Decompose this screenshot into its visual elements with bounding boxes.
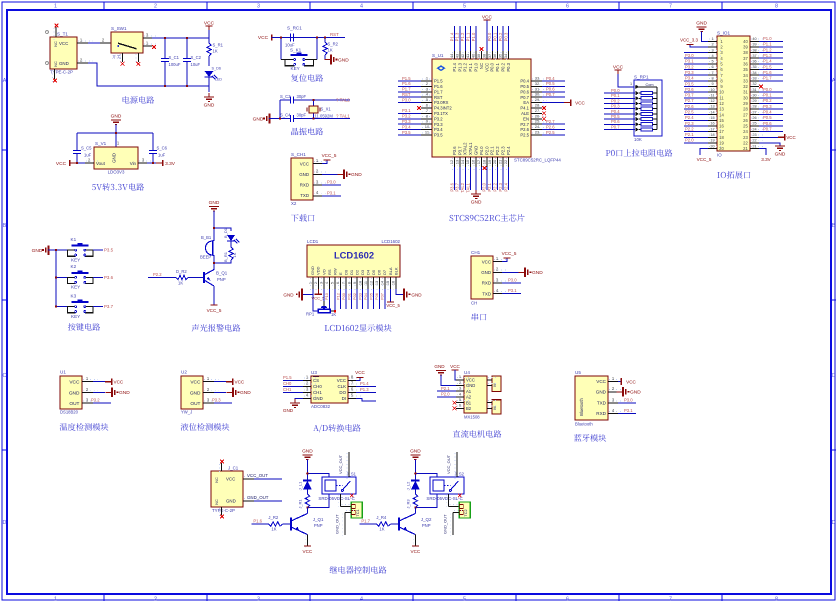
S_IO1 right pin 35: [750, 69, 759, 71]
svg-text:J_Q2: J_Q2: [421, 517, 432, 522]
svg-text:P2.6: P2.6: [520, 127, 529, 132]
svg-text:P1.1: P1.1: [468, 62, 473, 71]
svg-text:GND: GND: [119, 390, 130, 396]
svg-text:GND: GND: [596, 390, 607, 395]
svg-text:21: 21: [498, 159, 503, 164]
svg-text:RXD: RXD: [482, 281, 491, 286]
mcu right pin 23 P2.5: [531, 134, 542, 136]
mcu right pin 33 P0.4: [531, 80, 542, 82]
svg-text:VCC: VCC: [303, 549, 313, 554]
S_T1 pin 2 GND: [77, 62, 88, 64]
svg-text:P2.5: P2.5: [546, 130, 555, 135]
wire LED to ground rail: [208, 77, 210, 92]
svg-text:GND: GND: [434, 364, 445, 369]
svg-text:5: 5: [711, 60, 713, 64]
mcu right pin 31 P0.6: [531, 91, 542, 93]
svg-text:VCC_OUT: VCC_OUT: [338, 454, 343, 474]
svg-text:VCC: VCC: [626, 379, 636, 384]
svg-text:U4: U4: [464, 370, 470, 375]
svg-text:TAL1: TAL1: [466, 182, 471, 192]
S_V1 pin 3 Vin: [138, 162, 147, 164]
CH1 pin 1: [493, 261, 502, 263]
connector CH1 serial: [471, 256, 493, 299]
svg-text:P3.7: P3.7: [104, 304, 114, 309]
LED B_D1: [227, 235, 235, 241]
mcu bottom pin 12 P3.6: [454, 157, 456, 167]
svg-text:P1.6: P1.6: [763, 70, 772, 75]
svg-text:M: M: [493, 383, 497, 386]
svg-text:16: 16: [392, 281, 396, 285]
svg-text:10K: 10K: [634, 137, 642, 142]
S_CH1 pin 2: [313, 173, 322, 175]
svg-text:GND: GND: [471, 200, 482, 206]
ground reset: [324, 55, 326, 60]
svg-text:33: 33: [743, 78, 748, 83]
svg-text:2: 2: [154, 3, 157, 9]
svg-text:13: 13: [375, 281, 379, 285]
svg-text:TC1: TC1: [355, 509, 360, 516]
diode J_L2: [411, 481, 420, 490]
svg-text:P0.1: P0.1: [495, 62, 500, 71]
S_IO1 left pin 20: [708, 148, 717, 150]
svg-text:GND: GND: [351, 172, 362, 178]
S_IO1 left pin 8: [708, 80, 717, 82]
svg-text:27: 27: [752, 110, 756, 114]
svg-text:LCD1602: LCD1602: [381, 239, 400, 244]
svg-text:35: 35: [498, 53, 503, 58]
svg-text:P1.5: P1.5: [402, 76, 411, 81]
S_IO1 left pin 17: [708, 131, 717, 133]
power circuit ground: [204, 93, 214, 101]
svg-text:GND: GND: [240, 390, 251, 396]
svg-text:P02: P02: [352, 293, 357, 300]
svg-text:38: 38: [743, 50, 748, 55]
svg-text:J_R3: J_R3: [405, 499, 410, 509]
wire resistor to LED: [208, 56, 210, 66]
ground download: [338, 173, 345, 175]
svg-text:S_C3: S_C3: [280, 94, 291, 99]
svg-text:LDO3V3: LDO3V3: [108, 170, 125, 175]
svg-text:XTAL2: XTAL2: [463, 142, 468, 155]
title 复位电路: [291, 74, 323, 82]
svg-text:4: 4: [360, 596, 363, 602]
svg-text:P3.0RX: P3.0RX: [434, 100, 449, 105]
svg-text:P0.0: P0.0: [487, 32, 492, 41]
relay contact to terminal J_S2: [447, 494, 449, 507]
svg-text:P3.7: P3.7: [685, 93, 694, 98]
S_IO1 right pin 25: [750, 125, 759, 127]
svg-text:1K: 1K: [379, 527, 384, 532]
S_IO1 left pin 15: [708, 119, 717, 121]
svg-text:P1.7: P1.7: [402, 87, 411, 92]
svg-text:S_C4: S_C4: [280, 113, 291, 118]
svg-text:J_R4: J_R4: [376, 515, 386, 520]
svg-text:P3.3: P3.3: [402, 119, 411, 124]
svg-text:J_L1: J_L1: [297, 481, 302, 490]
svg-text:31: 31: [535, 86, 540, 91]
resistor S_R2 1K: [324, 38, 326, 43]
svg-text:NC: NC: [54, 41, 58, 47]
junction dots reset: [280, 36, 282, 38]
svg-text:16: 16: [471, 159, 476, 164]
wire emitter to VCC_5: [213, 286, 215, 305]
svg-text:P1.6: P1.6: [253, 518, 262, 523]
S_IO1 left pin 14: [708, 114, 717, 116]
svg-text:P1.3: P1.3: [457, 62, 462, 71]
svg-text:10: 10: [719, 90, 724, 95]
S_T1 bottom no-connect pin: [54, 69, 56, 79]
mcu right pin 27 ALE: [531, 112, 542, 114]
svg-text:U5: U5: [575, 370, 581, 375]
S_SW1 pin 1 no-connect: [143, 45, 152, 47]
svg-text:P0.2: P0.2: [501, 62, 506, 71]
svg-text:SRD-05VDC-SL-C: SRD-05VDC-SL-C: [318, 496, 354, 501]
svg-text:MX1508: MX1508: [464, 415, 480, 420]
svg-text:2: 2: [711, 43, 713, 47]
svg-text:1: 1: [54, 596, 57, 602]
S_IO1 right pin 23: [750, 136, 759, 138]
lcd module LCD1: [307, 245, 400, 277]
svg-text:P00: P00: [341, 292, 346, 300]
svg-text:GND: GND: [630, 390, 641, 396]
S_IO1 right pin 34: [750, 74, 759, 76]
S_IO1 right pin 38: [750, 52, 759, 54]
svg-text:4: 4: [325, 282, 329, 284]
svg-text:29: 29: [535, 97, 540, 102]
svg-text:P3.0: P3.0: [402, 97, 411, 102]
svg-text:KEY: KEY: [71, 314, 80, 319]
junction dots power rails: [164, 37, 166, 39]
svg-text:E: E: [338, 272, 343, 275]
svg-text:CS: CS: [313, 378, 319, 383]
svg-text:VCC_OUT: VCC_OUT: [247, 473, 268, 478]
svg-text:21: 21: [752, 144, 756, 148]
S_IO1 left pin 7: [708, 74, 717, 76]
power VCC_5 alarm: [211, 304, 218, 306]
svg-text:P1.7: P1.7: [763, 76, 772, 81]
svg-text:P3.2: P3.2: [91, 398, 100, 403]
buzzer B_B1 BEEP: [206, 241, 213, 255]
svg-text:P0.1: P0.1: [763, 93, 772, 98]
svg-text:GND: GND: [112, 153, 117, 163]
power VCC relay J_S1: [304, 545, 311, 547]
svg-text:38: 38: [752, 48, 756, 52]
svg-text:38: 38: [481, 53, 486, 58]
svg-text:32: 32: [535, 81, 540, 86]
capacitor S_RC1 10uF: [291, 34, 294, 42]
mcu right pin 32 P0.5: [531, 85, 542, 87]
mcu left pin 2 P1.6: [421, 85, 432, 87]
svg-text:VCC_OUT: VCC_OUT: [446, 454, 451, 474]
wire alarm bottom node: [214, 260, 231, 263]
svg-text:P0.2: P0.2: [498, 32, 503, 41]
svg-text:P1.6: P1.6: [402, 81, 411, 86]
svg-text:6: 6: [566, 596, 569, 602]
svg-text:YW_J: YW_J: [181, 410, 192, 415]
svg-text:GND: GND: [411, 292, 422, 297]
svg-text:DI: DI: [342, 396, 346, 401]
svg-text:1: 1: [309, 282, 313, 284]
svg-text:P0.7: P0.7: [520, 95, 529, 100]
svg-text:7: 7: [711, 71, 713, 75]
mcu left pin 7 P3.1TX: [421, 112, 432, 114]
svg-text:SRD-05VDC-SL-C: SRD-05VDC-SL-C: [426, 496, 462, 501]
svg-text:TXD: TXD: [300, 193, 309, 198]
svg-text:1K: 1K: [178, 281, 183, 286]
svg-text:31: 31: [752, 88, 756, 92]
svg-text:13: 13: [710, 105, 714, 109]
svg-text:P2.6: P2.6: [546, 124, 555, 129]
svg-text:D1: D1: [349, 269, 354, 275]
resistor J_R3: [414, 489, 416, 494]
svg-text:VCC: VCC: [450, 364, 460, 369]
svg-text:VCC_5: VCC_5: [386, 303, 400, 308]
S_T1 top no-connect pin: [55, 27, 57, 37]
svg-text:D7: D7: [382, 269, 387, 275]
svg-text:NC: NC: [479, 63, 484, 69]
svg-text:36: 36: [743, 61, 748, 66]
svg-text:P3.1: P3.1: [624, 408, 633, 413]
CH1 pin 4: [493, 293, 502, 295]
svg-text:5: 5: [331, 282, 335, 284]
frame row ticks and letters: [2, 78, 836, 526]
svg-text:P3.4: P3.4: [685, 76, 694, 81]
svg-text:B1: B1: [466, 400, 472, 405]
mcu bottom pin 21 P2.3: [502, 157, 504, 167]
relay common pin wire J_S2: [456, 452, 458, 477]
svg-text:8: 8: [775, 3, 778, 9]
S_IO1 right pin 27: [750, 114, 759, 116]
mcu top pin 37 P0.0: [491, 51, 493, 59]
svg-text:LCD1: LCD1: [307, 239, 319, 244]
svg-text:20: 20: [492, 159, 497, 164]
svg-text:A2: A2: [466, 395, 472, 400]
svg-text:P3.1: P3.1: [685, 59, 694, 64]
svg-text:CH1: CH1: [313, 390, 322, 395]
svg-text:J_Q1: J_Q1: [313, 517, 324, 522]
S_RP1 resistor element 3 net P0.2: [604, 103, 635, 105]
svg-text:KEY: KEY: [71, 285, 80, 290]
key K1: [56, 249, 67, 251]
svg-text:VCC: VCC: [204, 20, 215, 26]
capacitor S_C1 100uF: [164, 38, 166, 58]
svg-text:GND: GND: [32, 248, 43, 254]
svg-text:B_Q1: B_Q1: [216, 271, 228, 276]
svg-text:B_R1: B_R1: [223, 251, 228, 262]
svg-text:28: 28: [535, 103, 540, 108]
title 晶振电路: [291, 128, 323, 136]
mcu top pin 36 P0.1: [497, 51, 499, 59]
svg-text:GND: GND: [253, 117, 264, 123]
mcu right pin 25 P2.7: [531, 123, 542, 125]
svg-text:26: 26: [752, 116, 756, 120]
capacitor S_C3 30pF: [280, 99, 290, 101]
svg-text:LCD1602: LCD1602: [334, 250, 374, 261]
svg-text:P3.6: P3.6: [449, 182, 454, 191]
svg-text:Bluetooth: Bluetooth: [575, 422, 593, 427]
J_C1 top no-connect: [221, 463, 223, 471]
svg-text:X2: X2: [291, 201, 297, 206]
svg-text:18: 18: [710, 133, 714, 137]
svg-text:P0.5: P0.5: [763, 115, 772, 120]
svg-text:EN: EN: [523, 116, 529, 121]
svg-text:J_S1: J_S1: [346, 472, 356, 477]
svg-text:35: 35: [752, 65, 756, 69]
svg-text:? TAL1: ? TAL1: [336, 113, 350, 118]
wire VCC to resistor pack common: [618, 74, 634, 87]
svg-text:P1.5: P1.5: [763, 64, 772, 69]
svg-text:VDD: VDD: [316, 266, 321, 275]
svg-text:S_C1: S_C1: [169, 55, 180, 60]
S_RP1 resistor element 5 net P0.4: [604, 113, 635, 115]
S_IO1 left pin 12: [708, 102, 717, 104]
svg-text:P2.3: P2.3: [685, 121, 694, 126]
svg-text:7: 7: [669, 596, 672, 602]
svg-text:P3.3: P3.3: [434, 122, 443, 127]
svg-text:P2.0: P2.0: [482, 182, 487, 191]
svg-text:P2.0: P2.0: [441, 392, 450, 397]
svg-text:14: 14: [381, 281, 385, 285]
svg-text:29: 29: [752, 99, 756, 103]
svg-text:P2.1: P2.1: [487, 182, 492, 191]
svg-text:P05: P05: [369, 293, 374, 300]
svg-text:P2.6: P2.6: [685, 104, 694, 109]
svg-text:TXD: TXD: [597, 401, 607, 406]
title A/D转换电路: [313, 424, 361, 432]
svg-text:3: 3: [257, 596, 260, 602]
svg-text:P0.3: P0.3: [763, 104, 772, 109]
svg-text:GND: GND: [466, 383, 475, 388]
svg-text:11: 11: [364, 281, 368, 285]
svg-text:ALE: ALE: [521, 111, 529, 116]
svg-text:GND: GND: [532, 270, 543, 276]
svg-text:P1.5: P1.5: [283, 375, 292, 380]
svg-text:VCC: VCC: [69, 380, 80, 386]
S_V1 pin 2 Vout: [85, 162, 94, 164]
svg-text:P1.7: P1.7: [361, 518, 370, 523]
mcu top pin 43 P1.3: [459, 51, 461, 59]
svg-text:M: M: [493, 406, 497, 409]
svg-text:J_R1: J_R1: [297, 499, 302, 509]
svg-text:P1.3: P1.3: [763, 53, 772, 58]
mcu bottom pin 18 P2.0: [486, 157, 488, 167]
svg-text:P3.6: P3.6: [452, 146, 457, 155]
svg-text:P2.7: P2.7: [520, 122, 529, 127]
svg-text:VCC_5: VCC_5: [502, 251, 517, 256]
svg-text:5: 5: [463, 596, 466, 602]
svg-text:P3.1TX: P3.1TX: [434, 111, 448, 116]
svg-text:GND: GND: [313, 396, 323, 401]
svg-text:12: 12: [369, 281, 373, 285]
sensor U1 DS18B20 temperature: [60, 376, 82, 409]
svg-text:P2.3: P2.3: [501, 146, 506, 155]
svg-text:GND: GND: [775, 152, 786, 158]
svg-text:17: 17: [476, 159, 481, 164]
svg-text:VCC: VCC: [300, 161, 309, 166]
svg-text:NC: NC: [215, 499, 219, 505]
svg-text:VCC_5: VCC_5: [312, 296, 326, 301]
svg-text:8: 8: [347, 282, 351, 284]
svg-text:LED: LED: [215, 78, 222, 82]
junction dots crystal: [312, 99, 314, 101]
svg-text:D4: D4: [366, 269, 371, 275]
wire base J_Q1: [282, 523, 291, 525]
svg-text:23: 23: [752, 133, 756, 137]
svg-text:P0.2: P0.2: [763, 98, 772, 103]
svg-text:1uF: 1uF: [84, 153, 92, 158]
svg-text:P3.1: P3.1: [508, 288, 517, 293]
svg-text:17: 17: [710, 127, 714, 131]
svg-text:? TAL2: ? TAL2: [336, 97, 350, 102]
svg-text:BLK: BLK: [393, 267, 398, 275]
svg-text:22: 22: [752, 139, 756, 143]
mcu right pin 26 EN: [531, 118, 542, 120]
S_IO1 right pin 37: [750, 57, 759, 59]
mcu bottom pin 13 P3.7: [459, 157, 461, 167]
wire reset top rail: [272, 37, 346, 39]
motor terminal M2: [492, 400, 501, 414]
wire relay top rail J_S1: [306, 460, 308, 474]
svg-text:P2.5: P2.5: [520, 133, 529, 138]
svg-text:23: 23: [535, 130, 540, 135]
svg-text:P2.1: P2.1: [490, 146, 495, 155]
key S_K1 reset button: [280, 38, 282, 60]
svg-text:2: 2: [314, 282, 318, 284]
svg-text:11: 11: [711, 93, 715, 97]
transistor J_Q2 PNP: [398, 518, 400, 531]
svg-text:P2.2: P2.2: [495, 146, 500, 155]
svg-text:10: 10: [710, 88, 714, 92]
svg-text:40: 40: [752, 37, 756, 41]
svg-text:GND: GND: [338, 57, 349, 63]
resistor J_R4 1K: [376, 522, 390, 526]
mcu bottom pin 22 P2.4: [508, 157, 510, 167]
relay contact to terminal J_S1: [339, 494, 341, 507]
S_IO1 right pin 24: [750, 131, 759, 133]
svg-text:4: 4: [360, 3, 363, 9]
svg-text:P0.7: P0.7: [611, 124, 620, 129]
svg-text:P1.4: P1.4: [360, 381, 369, 386]
svg-text:OUT: OUT: [190, 401, 200, 407]
svg-text:C: C: [3, 373, 7, 379]
regulator S_V1 LDO3V3: [94, 147, 138, 169]
key K2: [56, 276, 67, 278]
svg-text:P2.7: P2.7: [546, 119, 555, 124]
svg-text:P3.0: P3.0: [327, 180, 336, 185]
S_SW1 pin 3: [143, 37, 152, 39]
key K3: [56, 306, 67, 308]
S_IO1 right pin 32: [750, 85, 759, 87]
svg-text:P3.7: P3.7: [455, 182, 460, 191]
svg-text:15: 15: [465, 159, 470, 164]
svg-text:25: 25: [752, 122, 756, 126]
svg-text:D3: D3: [360, 269, 365, 275]
mcu left pin 5 P3.0RX: [421, 102, 432, 104]
svg-text:9: 9: [353, 282, 357, 284]
mcu right pin 28 P4.1: [531, 107, 542, 109]
mcu top pin 35 P0.2: [502, 51, 504, 59]
svg-text:U3: U3: [311, 370, 317, 375]
svg-text:39: 39: [743, 45, 748, 50]
bluetooth U5: [575, 376, 608, 420]
svg-text:34: 34: [743, 73, 748, 78]
svg-text:43: 43: [454, 53, 459, 58]
svg-text:P0.3: P0.3: [503, 32, 508, 41]
svg-text:D5: D5: [371, 269, 376, 275]
title IO拓展口: [717, 171, 750, 179]
diode J_L1: [303, 481, 312, 490]
svg-text:P1.0: P1.0: [471, 32, 476, 41]
